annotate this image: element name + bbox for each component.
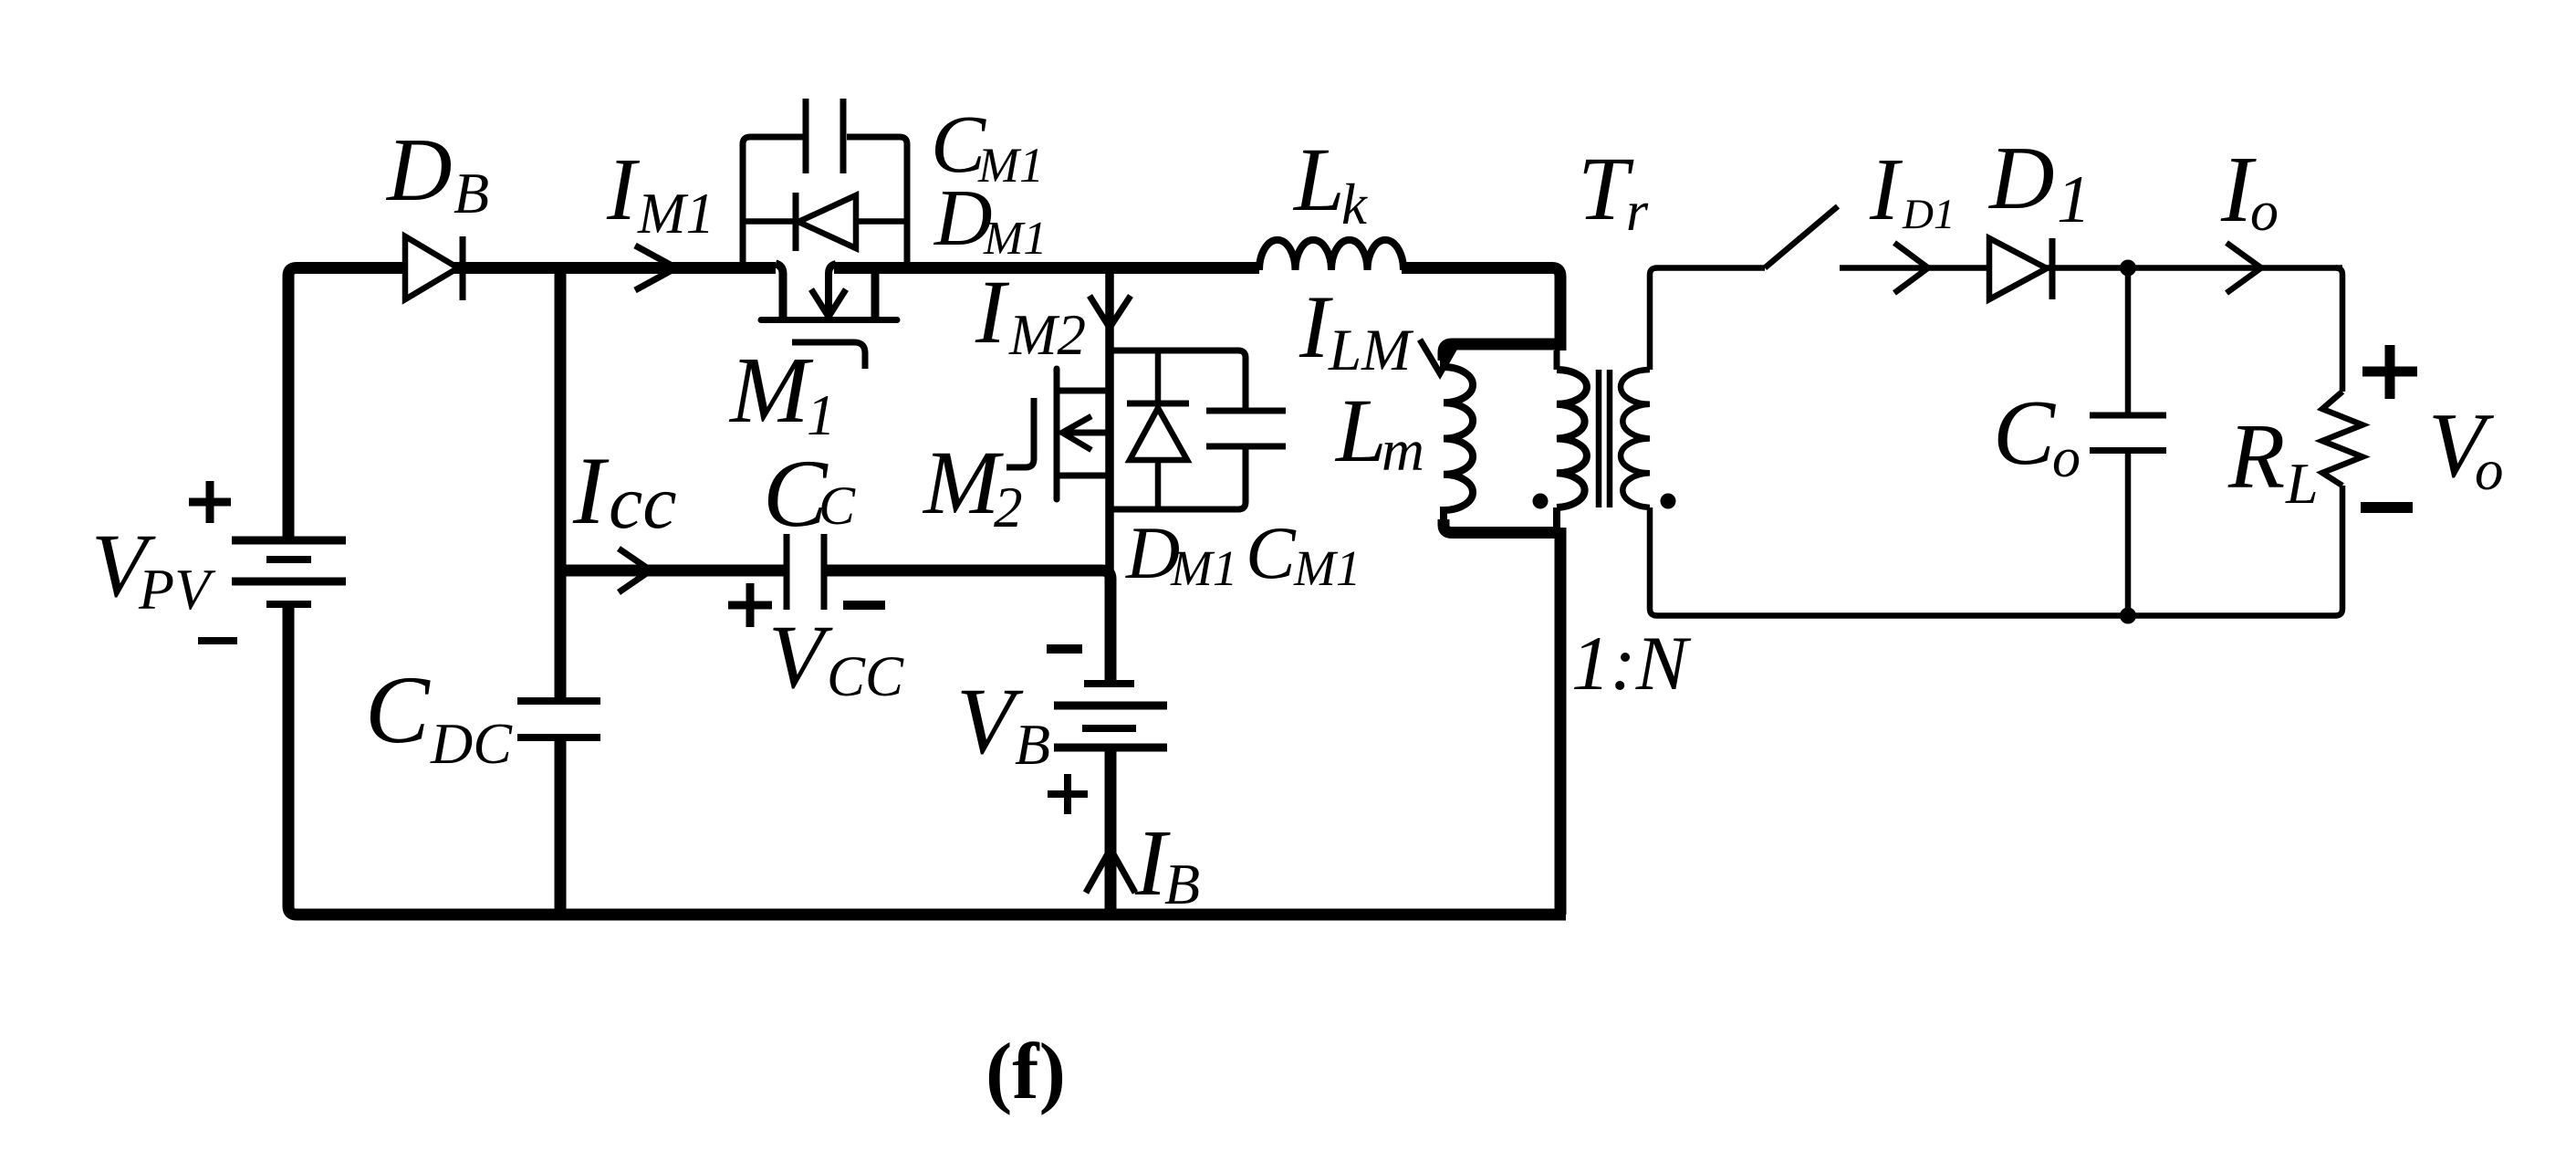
resistor R_L xyxy=(2322,392,2362,486)
svg-text:L: L xyxy=(2285,451,2319,516)
svg-text:o: o xyxy=(2250,181,2279,243)
capacitor C_C xyxy=(787,534,824,610)
wire V_PV negative lead and bottom rail xyxy=(288,604,1566,915)
svg-text:C: C xyxy=(1993,382,2056,485)
label minus V_o xyxy=(2361,502,2413,513)
svg-text:M2: M2 xyxy=(1008,303,1086,367)
wire top-left rail from V_PV plus up and right to M1 drain xyxy=(288,268,776,543)
wire secondary bottom xyxy=(1650,507,2135,616)
label plus V_PV xyxy=(189,481,231,523)
capacitor C_o xyxy=(2125,268,2132,616)
transformer secondary winding xyxy=(1621,370,1650,507)
svg-text:m: m xyxy=(1382,418,1424,484)
svg-text:D: D xyxy=(385,120,453,220)
wire from D1 to right corner xyxy=(2047,265,2342,271)
svg-text:D: D xyxy=(1987,129,2055,228)
label minus V_B xyxy=(1047,644,1082,654)
mosfet M2 source stub xyxy=(1057,473,1110,479)
junction dot top xyxy=(2120,260,2136,277)
capacitor C_M1 top plates xyxy=(806,99,843,173)
arrow I_M1 xyxy=(635,246,676,290)
snubber loop of M2 bottom xyxy=(1110,446,1246,509)
svg-text:M1: M1 xyxy=(1170,540,1237,596)
svg-text:M: M xyxy=(922,432,1004,533)
arrow I_cc xyxy=(619,549,651,592)
svg-text:CC: CC xyxy=(827,644,904,708)
diode D_M1 bottom xyxy=(1155,350,1162,509)
snubber loop of M2 top xyxy=(1110,350,1246,409)
label plus V_CC xyxy=(728,583,772,627)
svg-text:DC: DC xyxy=(430,711,513,776)
svg-text:B: B xyxy=(454,161,489,225)
wire secondary top right to D1 xyxy=(1840,265,1989,271)
svg-text:M1: M1 xyxy=(1293,540,1361,596)
svg-text:M1: M1 xyxy=(637,182,714,246)
svg-text:1:N: 1:N xyxy=(1571,621,1692,706)
svg-text:cc: cc xyxy=(609,460,677,545)
arrow I_o xyxy=(2227,243,2261,293)
inductor L_k xyxy=(1259,240,1403,270)
wire L_m bottom horizontal xyxy=(1444,519,1560,533)
capacitor C_DC plates xyxy=(517,701,600,737)
arrow I_LM xyxy=(1420,340,1455,373)
capacitor C_M1 bottom plates xyxy=(1206,411,1286,446)
snubber loop of M1 xyxy=(743,137,803,265)
svg-text:M1: M1 xyxy=(983,213,1047,265)
svg-text:o: o xyxy=(2475,438,2504,502)
wire right vertical bottom xyxy=(2135,486,2342,616)
svg-text:L: L xyxy=(1292,129,1345,230)
svg-text:B: B xyxy=(1164,852,1200,916)
arrow I_D1 xyxy=(1894,243,1928,293)
wire secondary top xyxy=(1650,268,1765,371)
label plus V_o xyxy=(2362,345,2417,399)
wire V_B to bottom rail xyxy=(1105,751,1117,915)
svg-text:D1: D1 xyxy=(1902,191,1955,238)
svg-text:(f): (f) xyxy=(986,1028,1066,1116)
capacitor C_DC branch vertical xyxy=(555,268,567,915)
wire right vertical top xyxy=(2336,268,2342,392)
switch blade xyxy=(1765,206,1838,268)
wire transformer primary vertical to bottom rail xyxy=(1555,528,1567,915)
svg-text:V: V xyxy=(768,606,833,707)
svg-text:V: V xyxy=(956,669,1024,774)
mosfet M1 drain stub xyxy=(776,264,783,319)
svg-text:r: r xyxy=(1626,181,1649,243)
svg-text:PV: PV xyxy=(138,557,216,622)
wire L_m top horizontal xyxy=(1444,344,1560,361)
label minus V_PV xyxy=(198,637,237,644)
diode D_B xyxy=(405,236,458,299)
mosfet M1 body arrow xyxy=(829,264,836,314)
transformer core xyxy=(1599,370,1610,507)
svg-text:C: C xyxy=(819,476,856,536)
svg-text:o: o xyxy=(2052,427,2081,489)
mosfet M1 source stub xyxy=(871,270,880,319)
svg-text:R: R xyxy=(2227,405,2285,508)
wire I_cc clamp xyxy=(560,565,785,577)
svg-text:LM: LM xyxy=(1328,318,1414,383)
mosfet M1 gate xyxy=(792,342,865,369)
wire top rail from M1 source to L_k xyxy=(834,262,1259,274)
dot primary xyxy=(1533,494,1549,509)
diode D_M1 top xyxy=(743,218,907,225)
svg-text:C: C xyxy=(1246,511,1297,594)
svg-text:I: I xyxy=(1869,141,1903,238)
svg-text:C: C xyxy=(365,656,431,763)
mosfet M2 channel bar xyxy=(1054,369,1060,499)
mosfet M2 body arrow xyxy=(1066,430,1110,436)
svg-text:I: I xyxy=(606,141,641,238)
svg-text:I: I xyxy=(572,437,610,544)
svg-text:M: M xyxy=(728,338,814,443)
transformer primary winding xyxy=(1554,350,1560,370)
battery V_PV plates xyxy=(232,540,346,581)
battery V_B plates xyxy=(1082,684,1136,728)
mosfet M2 gate xyxy=(1006,398,1034,467)
junction dot bottom xyxy=(2120,608,2136,624)
svg-text:L: L xyxy=(1334,380,1387,481)
arrow I_M2 xyxy=(1090,296,1131,328)
wire M2 branch vertical xyxy=(1105,268,1114,571)
svg-text:1: 1 xyxy=(2057,162,2091,237)
svg-text:k: k xyxy=(1341,173,1368,236)
label minus V_CC xyxy=(843,601,885,610)
svg-text:2: 2 xyxy=(994,476,1023,539)
arrow I_B xyxy=(1086,849,1135,893)
inductor L_m winding xyxy=(1444,357,1473,520)
label plus V_B xyxy=(1048,774,1088,814)
wire top rail from L_k to transformer corner down to L_m top xyxy=(1402,268,1560,351)
diode D1 xyxy=(1989,238,2047,299)
dot secondary xyxy=(1661,494,1676,509)
svg-text:I: I xyxy=(975,261,1010,362)
mosfet M2 drain stub xyxy=(1057,388,1110,394)
svg-text:B: B xyxy=(1015,712,1050,777)
mosfet M1 channel bar xyxy=(761,317,897,323)
svg-text:1: 1 xyxy=(807,383,836,447)
